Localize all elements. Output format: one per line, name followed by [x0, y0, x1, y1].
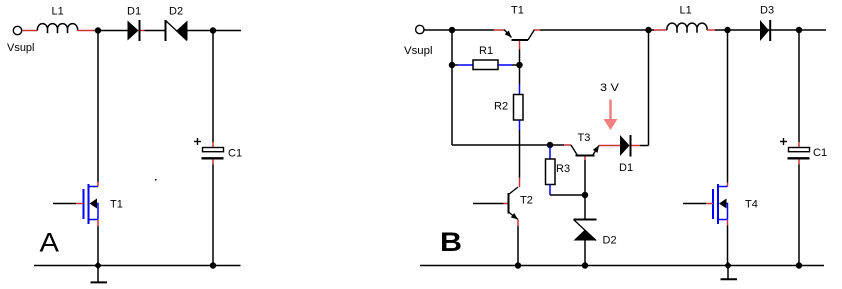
svg-text:L1: L1: [680, 5, 692, 17]
svg-text:D3: D3: [760, 5, 774, 17]
svg-text:C1: C1: [228, 148, 242, 160]
svg-text:R3: R3: [556, 163, 570, 175]
svg-text:C1: C1: [813, 147, 827, 159]
svg-text:B: B: [440, 227, 462, 257]
svg-text:3 V: 3 V: [600, 82, 620, 94]
svg-text:T1: T1: [110, 199, 123, 211]
svg-text:R2: R2: [494, 101, 508, 113]
svg-text:D1: D1: [127, 6, 141, 18]
svg-text:Vsupl: Vsupl: [404, 45, 433, 57]
svg-text:D2: D2: [169, 6, 183, 18]
svg-text:T1: T1: [511, 5, 524, 17]
svg-text:A: A: [40, 228, 60, 258]
svg-text:Vsupl: Vsupl: [7, 42, 35, 54]
svg-text:T2: T2: [520, 195, 533, 207]
svg-text:L1: L1: [52, 6, 64, 18]
svg-text:D1: D1: [619, 162, 633, 174]
svg-text:R1: R1: [479, 45, 493, 57]
svg-text:T4: T4: [745, 199, 758, 211]
svg-text:T3: T3: [578, 132, 591, 144]
svg-text:D2: D2: [603, 235, 617, 247]
